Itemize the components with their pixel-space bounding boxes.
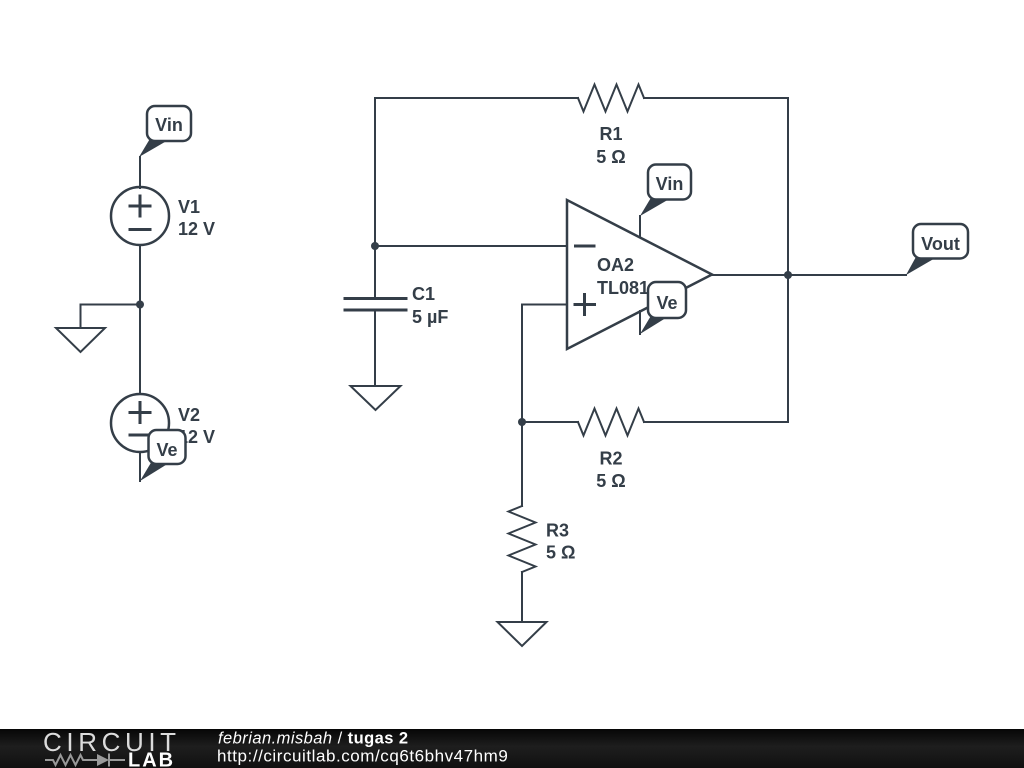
wire output xyxy=(712,274,906,276)
ground (under R3) xyxy=(498,622,547,646)
svg-text:5 Ω: 5 Ω xyxy=(546,543,575,563)
svg-text:R1: R1 xyxy=(599,124,622,144)
CircuitLab logo resistor+diode glyph xyxy=(45,754,125,767)
net flag Vin (op-amp V+) xyxy=(640,165,691,217)
label R2 5 Ω xyxy=(596,449,625,492)
node junction at output xyxy=(784,271,792,279)
svg-text:C1: C1 xyxy=(412,284,435,304)
wire R2 to right vertical xyxy=(644,421,788,423)
net flag Vin (left input source) xyxy=(139,106,191,157)
voltage source V1 xyxy=(111,187,169,245)
wire top feedback right segment xyxy=(644,97,788,99)
net flag Ve (op-amp V-) xyxy=(640,282,686,334)
label OA2 TL081 xyxy=(597,255,649,298)
wire junction to R3 xyxy=(521,422,523,506)
ground (under C1) xyxy=(351,386,401,410)
wire op-amp V- supply pin xyxy=(639,311,641,334)
resistor R1 xyxy=(578,85,644,112)
wire junction to ground stub xyxy=(81,305,141,329)
svg-text:Vin: Vin xyxy=(155,115,183,135)
svg-text:12 V: 12 V xyxy=(178,219,215,239)
resistor R2 xyxy=(578,409,644,436)
wire junction to R2 xyxy=(522,421,578,423)
node junction at R2/R3 xyxy=(518,418,526,426)
svg-text:Vin: Vin xyxy=(656,174,684,194)
wire non-inverting input xyxy=(522,305,567,423)
wire capacitor to ground xyxy=(374,311,376,386)
svg-text:OA2: OA2 xyxy=(597,255,634,275)
wire V2 bottom stub xyxy=(139,452,141,481)
svg-text:febrian.misbah / tugas 2: febrian.misbah / tugas 2 xyxy=(218,730,409,748)
resistor R3 xyxy=(509,506,536,572)
net flag Ve (at V2) xyxy=(140,430,186,481)
wire right vertical (top wire to R2) xyxy=(787,98,789,422)
svg-text:V1: V1 xyxy=(178,197,200,217)
op-amp OA2 TL081 xyxy=(567,200,712,349)
label R3 5 Ω xyxy=(546,521,575,563)
net flag Vout xyxy=(906,224,968,275)
wire R3 to ground xyxy=(521,572,523,622)
svg-text:TL081: TL081 xyxy=(597,278,649,298)
wire op-amp V+ supply pin xyxy=(639,216,641,237)
label V1 12 V xyxy=(178,197,215,239)
svg-text:5 Ω: 5 Ω xyxy=(596,147,625,167)
wire inverting input xyxy=(375,245,567,247)
node junction at V1/V2/ground xyxy=(136,301,144,309)
svg-text:R2: R2 xyxy=(599,449,622,469)
svg-text:R3: R3 xyxy=(546,521,569,541)
svg-text:Ve: Ve xyxy=(156,440,177,460)
ground (left) xyxy=(56,328,105,352)
label R1 5 Ω xyxy=(596,124,625,167)
svg-text:http://circuitlab.com/cq6t6bhv: http://circuitlab.com/cq6t6bhv47hm9 xyxy=(217,747,508,766)
svg-text:Ve: Ve xyxy=(656,293,677,313)
wire V1 bottom to junction to V2 top xyxy=(139,245,141,394)
wire left vertical (top wire to capacitor) xyxy=(374,98,376,297)
wire Vin flag to V1 top xyxy=(139,157,141,188)
wire top feedback left segment xyxy=(375,97,578,99)
label C1 5 µF xyxy=(412,284,448,327)
label V2 12 V xyxy=(178,405,215,447)
svg-text:Vout: Vout xyxy=(921,234,960,254)
svg-text:LAB: LAB xyxy=(128,750,175,768)
voltage source V2 xyxy=(111,394,169,452)
capacitor C1 xyxy=(345,299,406,311)
svg-text:5 µF: 5 µF xyxy=(412,307,448,327)
svg-text:V2: V2 xyxy=(178,405,200,425)
node junction at inverting input xyxy=(371,242,379,250)
svg-text:5 Ω: 5 Ω xyxy=(596,471,625,491)
